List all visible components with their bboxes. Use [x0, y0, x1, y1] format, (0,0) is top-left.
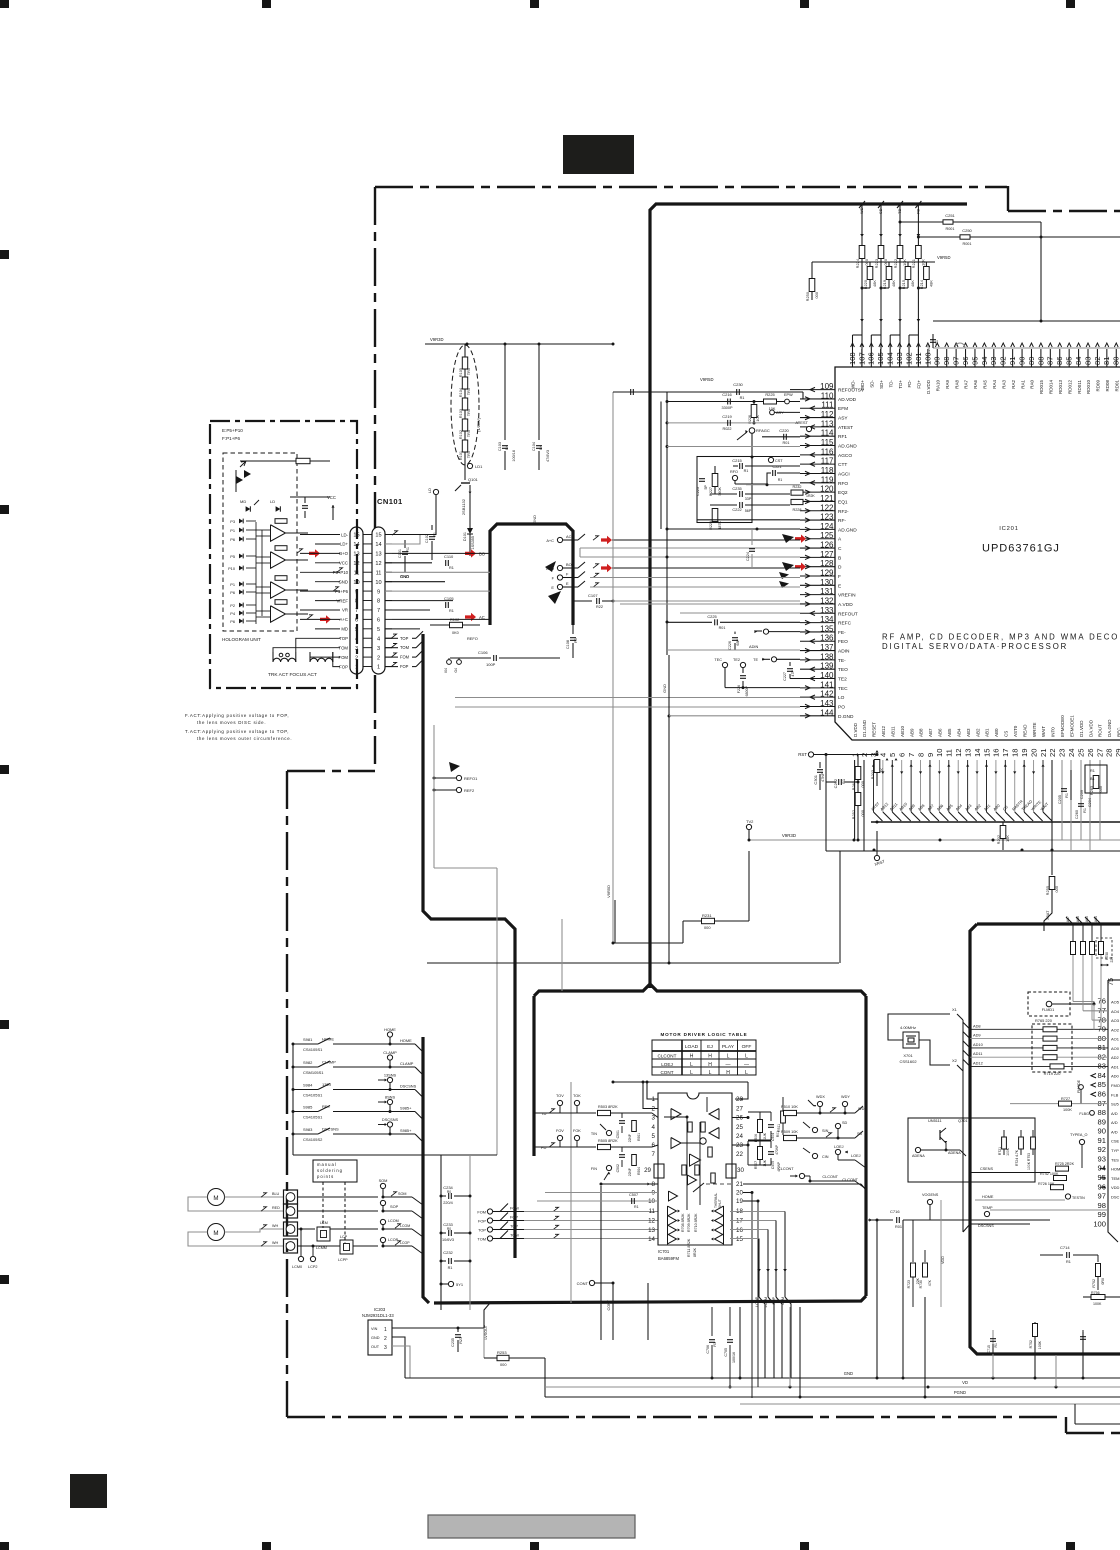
svg-text:AB7: AB7	[926, 803, 935, 812]
svg-text:8: 8	[377, 599, 380, 605]
svg-text:CTT: CTT	[838, 462, 847, 468]
svg-text:R203: R203	[870, 770, 875, 779]
svg-text:R1: R1	[744, 469, 749, 473]
svg-text:C202: C202	[833, 779, 838, 788]
thin box RF cluster	[697, 457, 752, 523]
svg-text:P2: P2	[230, 603, 235, 608]
svg-text:TYP: TYP	[1111, 1148, 1119, 1153]
svg-text:HOME: HOME	[384, 1027, 396, 1032]
svg-text:D1.GND: D1.GND	[862, 719, 867, 737]
wire pin13 B+O to staple	[392, 552, 490, 554]
svg-text:TE2: TE2	[838, 677, 847, 683]
svg-text:EFMODE0: EFMODE0	[1060, 715, 1065, 737]
wire pin11 P5+P10	[385, 571, 490, 573]
svg-text:C106: C106	[478, 650, 488, 655]
WDX WDY terminals	[817, 1101, 822, 1106]
svg-text:AB10: AB10	[898, 801, 909, 812]
red arrow pin13 right of CN101	[465, 549, 476, 557]
svg-text:AB0: AB0	[994, 728, 999, 737]
svg-text:REC: REC	[1117, 727, 1120, 737]
svg-text:B+O: B+O	[339, 551, 348, 556]
svg-text:AB12: AB12	[879, 801, 889, 811]
svg-text:C260: C260	[1075, 810, 1079, 819]
sheet border dash-dot left jog	[287, 770, 375, 772]
TIN terminal	[600, 1124, 606, 1130]
hatch marks near CN101	[297, 549, 303, 553]
CLCONT terminal	[790, 1175, 797, 1177]
svg-text:PGND: PGND	[954, 1390, 966, 1395]
svg-text:AB0: AB0	[992, 802, 1001, 811]
svg-text:—: —	[726, 1062, 731, 1068]
svg-text:90: 90	[1098, 1127, 1106, 1136]
svg-text:R727: R727	[1061, 1097, 1070, 1101]
svg-text:A04: A04	[1094, 916, 1098, 922]
svg-text:C216: C216	[722, 392, 732, 397]
svg-text:C505: C505	[771, 1161, 775, 1169]
svg-text:R711 8R2K: R711 8R2K	[687, 1238, 691, 1257]
svg-text:121: 121	[820, 494, 834, 503]
PGND rail	[545, 1396, 1120, 1398]
LCP LCPP pads	[340, 1240, 353, 1254]
svg-text:X1: X1	[952, 1007, 958, 1012]
svg-text:A05: A05	[1085, 916, 1089, 922]
svg-text:RST: RST	[798, 752, 807, 757]
capacitor C110 R1 series	[445, 560, 447, 566]
svg-text:22NP: 22NP	[628, 1133, 632, 1142]
right IC board outline	[977, 922, 1120, 925]
svg-text:AD10: AD10	[973, 1042, 984, 1047]
wire pins 23-27 down to rails	[1061, 760, 1063, 840]
svg-text:220/4: 220/4	[443, 1201, 453, 1205]
svg-text:8SNS: 8SNS	[385, 1095, 396, 1100]
svg-text:1: 1	[377, 665, 380, 671]
svg-text:C706: C706	[706, 1345, 710, 1354]
red arrow pin6 right of CN101	[465, 613, 476, 621]
GND rail	[405, 1377, 1120, 1379]
wire pin124	[667, 528, 800, 530]
pins 77 78 wires	[1083, 1010, 1108, 1012]
FIN terminal	[606, 1165, 611, 1170]
svg-text:LCOP: LCOP	[388, 1238, 399, 1242]
capacitor C103	[504, 344, 506, 440]
LCM LCMM pads	[317, 1227, 330, 1241]
TEC TE2 terminals	[722, 662, 727, 667]
R756 100K resistor	[1091, 1295, 1105, 1300]
svg-text:97: 97	[1098, 1192, 1106, 1201]
svg-text:A06: A06	[1076, 916, 1080, 922]
wire pin8 VREF	[385, 600, 453, 602]
svg-text:9: 9	[652, 1190, 656, 1197]
svg-text:R102: R102	[459, 430, 463, 439]
svg-text:47NP: 47NP	[821, 772, 825, 782]
svg-text:84: 84	[1098, 1071, 1106, 1080]
resistor R253 000	[483, 1328, 485, 1358]
svg-text:9: 9	[377, 589, 380, 595]
svg-text:V9R5D: V9R5D	[700, 377, 714, 382]
R727 100K resistor pin87	[1010, 1103, 1108, 1105]
wire pin6 A+C to staple	[392, 618, 490, 620]
Q701 box region	[908, 1118, 1035, 1182]
svg-text:LCP: LCP	[340, 1235, 348, 1239]
svg-text:CLAMP: CLAMP	[383, 1050, 397, 1055]
svg-text:85: 85	[1098, 1080, 1106, 1089]
svg-text:ADIN: ADIN	[838, 649, 850, 655]
crop marks top edge	[0, 0, 9, 8]
svg-text:B1: B1	[1090, 777, 1095, 781]
svg-text:TEC: TEC	[838, 686, 848, 692]
svg-text:PO: PO	[838, 704, 845, 710]
svg-text:48K: 48K	[872, 280, 877, 287]
R202 15K resistor below bus	[1002, 822, 1004, 826]
svg-text:ADENA: ADENA	[912, 1154, 925, 1158]
svg-text:EFM: EFM	[838, 406, 848, 412]
svg-text:CIN: CIN	[822, 1155, 829, 1159]
WD SD TD FD vertical bundle	[861, 205, 863, 335]
svg-text:S985+: S985+	[400, 1128, 412, 1133]
F226 6800P vertical	[740, 675, 746, 677]
capacitor C102 R1	[431, 525, 433, 530]
svg-text:Q101: Q101	[468, 477, 479, 482]
svg-text:CSE: CSE	[1111, 1139, 1120, 1144]
switch rows S981-S983	[292, 1044, 294, 1155]
svg-text:LD-: LD-	[341, 532, 348, 537]
TESTIN terminal pin97	[1065, 1194, 1070, 1199]
svg-text:WD-: WD-	[851, 380, 856, 389]
bus thick vertical switches	[423, 1037, 429, 1303]
svg-text:TOP: TOP	[400, 636, 409, 641]
svg-text:DA.VDD: DA.VDD	[1088, 719, 1093, 737]
motor driver board outline left edge	[532, 996, 535, 1156]
svg-text:21: 21	[736, 1181, 743, 1188]
svg-text:10: 10	[648, 1198, 655, 1205]
svg-text:22NP: 22NP	[628, 1167, 632, 1176]
svg-text:R219: R219	[882, 280, 887, 289]
svg-text:19: 19	[1020, 749, 1029, 757]
svg-text:24: 24	[1067, 749, 1076, 757]
manual soldering points box	[313, 1160, 357, 1182]
svg-text:33P: 33P	[745, 497, 752, 501]
svg-text:RD014: RD014	[1049, 380, 1054, 395]
svg-text:RFAGC: RFAGC	[756, 428, 770, 433]
capacitor C108 R1	[572, 625, 574, 634]
svg-text:R022: R022	[722, 427, 731, 431]
vertical wires into motor block top	[561, 919, 563, 991]
LD terminal near CN101	[433, 489, 438, 494]
svg-text:R509 10K: R509 10K	[781, 1130, 798, 1134]
svg-text:WDX: WDX	[816, 1095, 825, 1099]
net pin110 with C216 R225 EPW	[667, 401, 800, 403]
svg-text:RA4: RA4	[992, 380, 997, 389]
svg-text:L: L	[745, 1054, 748, 1060]
svg-text:10: 10	[375, 580, 381, 586]
svg-text:20: 20	[1029, 749, 1038, 757]
svg-text:25: 25	[1076, 749, 1085, 757]
svg-text:LOEJ: LOEJ	[661, 1062, 673, 1067]
svg-text:16: 16	[992, 749, 1001, 757]
motor driver board outline top edge with notch	[534, 984, 866, 996]
svg-text:MD: MD	[341, 627, 348, 632]
svg-text:F:P1+P6: F:P1+P6	[222, 436, 240, 441]
svg-text:TR5: TR5	[467, 430, 471, 437]
svg-text:TOM: TOM	[339, 645, 349, 650]
svg-text:EJ: EJ	[707, 1044, 713, 1050]
svg-text:000: 000	[1054, 885, 1059, 892]
svg-text:TR5: TR5	[467, 409, 471, 416]
op-amp U IC701 body	[658, 1093, 732, 1245]
svg-text:HOME: HOME	[400, 1038, 412, 1043]
svg-text:DSCSNS: DSCSNS	[400, 1084, 417, 1089]
svg-text:R503 8R2K: R503 8R2K	[598, 1105, 618, 1109]
svg-text:5: 5	[652, 1133, 656, 1140]
capacitor C107 R22	[573, 600, 592, 602]
sheet border dash-dot top	[375, 186, 1007, 188]
svg-text:P6: P6	[230, 590, 235, 595]
svg-text:R742 100K: R742 100K	[1040, 1172, 1059, 1176]
svg-text:AO4: AO4	[1111, 1009, 1120, 1014]
svg-text:REFC: REFC	[838, 621, 852, 627]
svg-text:G4: G4	[454, 668, 458, 673]
svg-text:AB11: AB11	[890, 726, 895, 737]
horizontal net y963	[427, 962, 839, 964]
A07-A04 pullup resistors top	[1066, 917, 1073, 924]
svg-text:R1: R1	[406, 547, 410, 552]
C715 R1 vertical	[990, 1338, 996, 1340]
svg-text:R756: R756	[1091, 1291, 1100, 1295]
svg-text:130: 130	[820, 578, 834, 587]
svg-text:D.VDD: D.VDD	[853, 722, 858, 737]
svg-text:140: 140	[820, 671, 834, 680]
vertical GND wire x669	[668, 655, 670, 963]
svg-text:000: 000	[860, 809, 865, 816]
svg-text:RF2-: RF2-	[838, 509, 849, 515]
svg-text:MD: MD	[240, 499, 246, 504]
svg-text:LOAD: LOAD	[685, 1044, 699, 1050]
R726 10K row pin96	[1051, 1185, 1064, 1190]
TOP TOM FOM FOP wires pins 4-1	[385, 637, 398, 639]
svg-text:CS4105S2: CS4105S2	[303, 1137, 323, 1142]
svg-text:S981: S981	[303, 1037, 313, 1042]
svg-text:CONT: CONT	[577, 1281, 589, 1286]
svg-text:143: 143	[820, 699, 834, 708]
svg-text:FOM: FOM	[510, 1206, 519, 1211]
svg-text:GND: GND	[371, 1336, 380, 1340]
svg-text:R1: R1	[740, 396, 745, 400]
svg-text:98: 98	[1098, 1201, 1106, 1210]
svg-text:X701: X701	[903, 1053, 913, 1058]
svg-text:3300P: 3300P	[722, 406, 733, 410]
svg-text:5P: 5P	[704, 484, 708, 489]
svg-text:117: 117	[821, 457, 834, 466]
svg-text:23: 23	[1058, 749, 1067, 757]
svg-text:FOM: FOM	[400, 655, 410, 660]
svg-text:R224: R224	[855, 258, 860, 268]
svg-text:8: 8	[652, 1181, 656, 1188]
flex cable staple outline middle	[490, 524, 573, 625]
svg-text:UN5111: UN5111	[928, 1118, 942, 1123]
svg-text:E: E	[566, 581, 569, 586]
svg-text:TRK ACT FOCUS ACT: TRK ACT FOCUS ACT	[268, 672, 317, 678]
svg-text:EPW: EPW	[784, 393, 793, 397]
long wires LO PO to IC	[455, 697, 800, 699]
svg-text:GND: GND	[532, 515, 537, 524]
svg-text:AGCO: AGCO	[838, 453, 852, 459]
svg-text:IC203: IC203	[374, 1307, 386, 1312]
svg-text:R504: R504	[637, 1167, 641, 1175]
svg-text:C222: C222	[732, 507, 741, 512]
svg-text:132: 132	[820, 596, 834, 605]
svg-text:R223: R223	[874, 259, 879, 268]
svg-text:VCC: VCC	[327, 495, 336, 500]
svg-text:R221: R221	[911, 259, 916, 268]
svg-text:C107: C107	[588, 593, 598, 598]
svg-text:FOP: FOP	[510, 1215, 518, 1220]
svg-text:93: 93	[1098, 1154, 1106, 1163]
TRK ACT coil	[273, 658, 296, 662]
svg-text:D101: D101	[463, 532, 467, 541]
svg-text:C110: C110	[444, 554, 454, 559]
svg-text:VD: VD	[962, 1380, 968, 1385]
page number black square bottom left	[70, 1474, 107, 1508]
svg-text:WAIT: WAIT	[1041, 726, 1046, 737]
FOV FOK terminals	[557, 1135, 562, 1140]
svg-text:48K: 48K	[910, 280, 915, 287]
svg-text:C235: C235	[451, 1338, 455, 1347]
svg-text:27: 27	[736, 1106, 743, 1113]
svg-text:487K: 487K	[718, 520, 722, 529]
svg-text:A07: A07	[1066, 916, 1070, 922]
svg-text:R709 8R2K: R709 8R2K	[687, 1213, 691, 1232]
svg-text:TR5: TR5	[467, 388, 471, 395]
svg-text:points: points	[317, 1174, 334, 1179]
svg-text:R252: R252	[851, 810, 856, 819]
R510 10K WD row	[784, 1110, 797, 1115]
red arrow pin6 left	[320, 615, 331, 623]
svg-text:8R2K: 8R2K	[693, 1247, 697, 1257]
svg-text:TESTIN: TESTIN	[1072, 1196, 1085, 1200]
svg-text:RD08: RD08	[1105, 380, 1110, 392]
svg-text:CS4105S1: CS4105S1	[303, 1115, 323, 1120]
svg-text:S985+: S985+	[400, 1106, 412, 1111]
resistor R261	[857, 755, 859, 767]
svg-text:RFO: RFO	[730, 470, 738, 474]
black flag marker 1	[545, 561, 556, 572]
svg-text:P6: P6	[230, 619, 235, 624]
gray caption bar bottom center	[428, 1515, 635, 1538]
svg-text:AB8: AB8	[919, 728, 924, 737]
svg-text:25: 25	[736, 1124, 743, 1131]
svg-text:ASY: ASY	[838, 416, 848, 422]
svg-text:TOP: TOP	[339, 636, 348, 641]
svg-text:C232: C232	[443, 1250, 453, 1255]
svg-text:AD.GND: AD.GND	[838, 527, 857, 533]
svg-text:FOM: FOM	[477, 1210, 486, 1215]
second arrow marks lower on bundle	[860, 319, 864, 322]
svg-text:HOM: HOM	[1111, 1167, 1120, 1172]
bottom right outlet wire	[1074, 1404, 1076, 1424]
LD1 terminal	[464, 460, 466, 466]
svg-text:AO1: AO1	[1111, 1037, 1120, 1042]
wire pin9 P1+P6	[385, 590, 490, 592]
svg-text:3: 3	[384, 1345, 387, 1351]
svg-text:R0: R0	[447, 1227, 451, 1231]
svg-text:LCOM: LCOM	[400, 1224, 410, 1228]
svg-text:100P: 100P	[486, 662, 496, 667]
svg-text:1K: 1K	[879, 768, 884, 773]
R229 487K vertical	[712, 509, 718, 522]
C225 R01 pin134	[667, 621, 712, 623]
net pin112 C219 R022	[667, 422, 800, 424]
svg-text:V9R5D: V9R5D	[937, 255, 951, 260]
svg-text:H: H	[708, 1054, 712, 1060]
svg-text:RF AMP, CD DECODER, MP3 AND WM: RF AMP, CD DECODER, MP3 AND WMA DECO	[882, 633, 1119, 642]
svg-text:ADENA: ADENA	[948, 1151, 961, 1155]
svg-text:RD011: RD011	[1077, 380, 1082, 394]
diode D101 1SS355	[469, 496, 471, 520]
svg-text:FOP: FOP	[339, 664, 348, 669]
R232 resistor pin120	[791, 490, 803, 495]
svg-text:123: 123	[820, 513, 834, 522]
op-amp U IC201 body outline	[835, 367, 1120, 740]
svg-text:L: L	[727, 1054, 730, 1060]
svg-text:CSM105S1: CSM105S1	[303, 1070, 324, 1075]
wire pin119 gray	[746, 484, 800, 486]
svg-text:1SS355: 1SS355	[471, 536, 475, 550]
R263 resistor near pin 27	[1093, 776, 1099, 789]
wire pin15 LD-	[385, 534, 436, 536]
svg-text:RA6: RA6	[973, 380, 978, 389]
svg-text:C221: C221	[772, 465, 781, 469]
vertical below right area	[876, 1220, 878, 1378]
svg-text:27: 27	[1095, 749, 1104, 757]
svg-text:AB6: AB6	[938, 728, 943, 737]
svg-text:LO: LO	[838, 695, 845, 701]
svg-text:TD+: TD+	[898, 380, 903, 389]
IC701 pin29 tab	[654, 1164, 664, 1178]
svg-text:128: 128	[820, 559, 834, 568]
svg-text:E:P5+P10: E:P5+P10	[222, 428, 243, 433]
wire V9R5D vertical gray mid	[612, 392, 614, 943]
wires pins 126 127 to left	[580, 547, 800, 549]
svg-text:0R0: 0R0	[1101, 1278, 1105, 1285]
svg-text:AB9: AB9	[909, 728, 914, 737]
svg-text:R01: R01	[895, 1225, 902, 1229]
capacitor C215 R1	[739, 463, 741, 469]
svg-text:000: 000	[814, 291, 819, 298]
svg-text:17: 17	[1001, 749, 1010, 757]
svg-text:DA.GND: DA.GND	[1107, 719, 1112, 737]
svg-text:28: 28	[1105, 749, 1114, 757]
svg-text:11: 11	[945, 749, 954, 757]
svg-text:TOM: TOM	[477, 1237, 486, 1242]
svg-text:13: 13	[648, 1227, 655, 1234]
svg-text:C204: C204	[1088, 798, 1092, 807]
net line below switches	[293, 1154, 497, 1156]
svg-text:ADIN: ADIN	[749, 644, 758, 649]
svg-text:HOME: HOME	[982, 1195, 994, 1199]
svg-text:TD: TD	[897, 209, 902, 214]
svg-text:REFOUT: REFOUT	[838, 611, 858, 617]
junction vertical x667	[666, 392, 668, 655]
svg-text:RD013: RD013	[1058, 380, 1063, 395]
sheet border dash-dot left upper	[374, 187, 376, 764]
svg-text:R724 4.7K: R724 4.7K	[1015, 1149, 1019, 1166]
svg-text:RD09: RD09	[1096, 380, 1101, 392]
svg-text:15: 15	[982, 749, 991, 757]
black title block rectangle top center	[563, 135, 634, 174]
svg-text:F.ACT:Applying positive voltag: F.ACT:Applying positive voltage to FOP,	[185, 713, 289, 718]
svg-text:L: L	[709, 1070, 712, 1076]
motor driver board outline right edge	[864, 996, 867, 1296]
